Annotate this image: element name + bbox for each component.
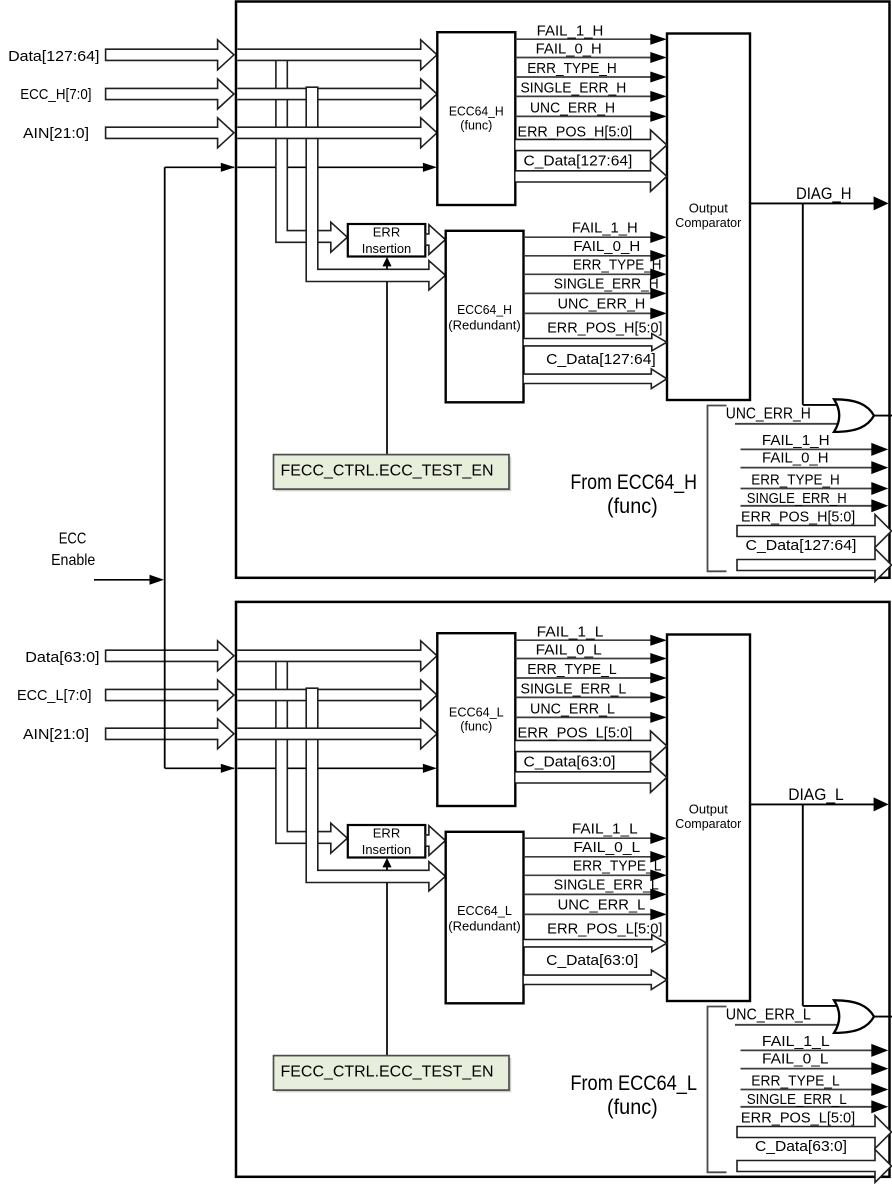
svg-text:Comparator: Comparator [675,215,742,230]
wire FECC_CTRL.ECC_TEST_EN up into ERR Insertion [386,266,388,270]
bracket grouping From-ECC64 signals [708,1007,727,1173]
svg-text:UNC_ERR_H: UNC_ERR_H [726,406,811,423]
wire FAIL_0_H redundant to comparator [524,255,652,257]
block Output Comparator [667,635,750,1002]
bus C_Data func to comparator [516,161,667,191]
wire UNC_ERR_H into OR gate [735,423,838,425]
svg-text:FECC_CTRL.ECC_TEST_EN: FECC_CTRL.ECC_TEST_EN [281,1064,494,1081]
svg-text:ERR_POS_L[5:0]: ERR_POS_L[5:0] [547,921,662,937]
svg-text:UNC_ERR_L: UNC_ERR_L [530,702,615,718]
svg-text:FAIL_1_L: FAIL_1_L [572,821,638,837]
wire ECC enable into box (arrow at border) [221,767,234,769]
bus tap A from Data bus down to ERR Insertion [276,59,347,252]
svg-text:FAIL_1_H: FAIL_1_H [572,220,638,236]
bus tap A from Data bus down to ERR Insertion [276,660,347,853]
svg-text:ERR_POS_L[5:0]: ERR_POS_L[5:0] [518,725,633,741]
block Output Comparator [667,34,750,401]
wire SINGLE_ERR_L to right border [741,1106,873,1108]
svg-text:SINGLE_ERR_H: SINGLE_ERR_H [747,491,847,507]
svg-text:(func): (func) [460,719,492,733]
wire ECC enable inside to ECC64_L func [238,767,425,769]
svg-text:FAIL_1_L: FAIL_1_L [537,624,604,640]
svg-text:ERR: ERR [373,224,400,239]
svg-text:SINGLE_ERR_L: SINGLE_ERR_L [521,682,627,698]
svg-text:C_Data[127:64]: C_Data[127:64] [746,538,857,554]
bus tap B from ECC bus down to redundant block [306,688,445,891]
bus ERR_POS_H[5:0] redundant to comparator [524,334,667,351]
svg-text:ERR_TYPE_L: ERR_TYPE_L [751,1074,839,1090]
svg-text:ECC64_L: ECC64_L [457,904,512,918]
wire FAIL_1_H to right border [741,448,873,450]
wire DIAG_L comparator to border [750,803,875,805]
block ERR Insertion [348,825,426,858]
wire ERR_TYPE_L func to comparator [516,677,653,679]
outer box ECC64_H section [236,2,890,578]
svg-text:Output: Output [689,201,728,216]
svg-text:UNC_ERR_H: UNC_ERR_H [530,101,615,117]
svg-text:FAIL_1_H: FAIL_1_H [762,433,830,449]
svg-text:ERR_TYPE_L: ERR_TYPE_L [527,662,617,678]
wire SINGLE_ERR_H to right border [741,505,873,507]
svg-text:ECC: ECC [59,531,87,548]
svg-text:ERR_TYPE_H: ERR_TYPE_H [573,257,662,273]
bus C_Data func to comparator [516,762,667,792]
wire UNC_ERR_L into OR gate [735,1024,838,1026]
bus C_Data to right border [737,1150,892,1183]
svg-text:ECC64_H: ECC64_H [457,303,512,317]
bus C_Data redundant to comparator [524,970,667,990]
bus AIN input (outside) [106,719,234,749]
bus ERR_POS_H[5:0] to right border [737,515,892,548]
wire ERR_TYPE_H func to comparator [516,76,653,78]
wire ERR_TYPE_L to right border [741,1089,873,1091]
svg-text:ECC_H[7:0]: ECC_H[7:0] [20,86,91,103]
wire SINGLE_ERR_H redundant to comparator [524,292,652,294]
OR gate (DIAG_H | UNC_ERR_H) [834,399,874,432]
svg-text:UNC_ERR_L: UNC_ERR_L [726,1007,811,1024]
wire FAIL_0_H to right border [741,467,873,469]
wire SINGLE_ERR_L func to comparator [516,696,653,698]
svg-text:ERR_POS_H[5:0]: ERR_POS_H[5:0] [518,124,633,140]
OR gate (DIAG_L | UNC_ERR_L) [834,1000,874,1033]
svg-text:ECC64_L: ECC64_L [449,705,504,719]
svg-text:Insertion: Insertion [362,241,412,256]
wire UNC_ERR_H redundant to comparator [524,312,652,314]
bus ERR_POS_L[5:0] redundant to comparator [524,935,667,952]
svg-text:ERR_TYPE_L: ERR_TYPE_L [573,858,662,874]
svg-text:From ECC64_H: From ECC64_H [570,471,697,494]
svg-text:ERR_POS_L[5:0]: ERR_POS_L[5:0] [741,1111,855,1127]
svg-text:(Redundant): (Redundant) [448,319,521,333]
svg-text:C_Data[63:0]: C_Data[63:0] [546,953,638,969]
svg-text:FAIL_0_H: FAIL_0_H [536,42,602,58]
wire ERR_TYPE_H redundant to comparator [524,273,652,275]
wire FAIL_0_H func to comparator [516,57,653,59]
block ECC64_L (Redundant) [446,832,524,1004]
svg-text:ERR_POS_H[5:0]: ERR_POS_H[5:0] [741,510,855,526]
wire ECC enable into box (arrow at border) [221,166,234,168]
wire FAIL_1_L func to comparator [516,639,653,641]
svg-text:(func): (func) [460,118,492,132]
svg-text:DIAG_H: DIAG_H [796,184,852,203]
wire SINGLE_ERR_H func to comparator [516,95,653,97]
wire DIAG_H branch down to OR gate [802,203,804,405]
register box FECC_CTRL.ECC_TEST_EN shadow [276,1058,512,1093]
wire ECC Enable feed arrow [94,579,151,581]
wire ECC enable inside to ECC64_H func [238,166,425,168]
svg-text:C_Data[127:64]: C_Data[127:64] [524,153,633,169]
svg-text:(Redundant): (Redundant) [448,920,521,934]
wire SINGLE_ERR_L redundant to comparator [524,893,652,895]
bus tap B from ECC bus down to redundant block [306,87,445,290]
svg-text:Enable: Enable [51,552,95,569]
block ECC64_H (Redundant) [446,231,524,402]
svg-text:DIAG_L: DIAG_L [788,785,844,804]
wire ECC Enable trunk top elbow [165,166,222,168]
bus Data inside box to func block [237,40,437,70]
svg-text:(func): (func) [607,495,658,518]
wire UNC_ERR_H func to comparator [516,115,653,117]
svg-text:ERR_TYPE_H: ERR_TYPE_H [527,61,617,77]
svg-text:ERR: ERR [373,825,400,840]
register box FECC_CTRL.ECC_TEST_EN shadow [276,457,512,492]
bus ECC_H inside box to func block [237,79,437,109]
wire FAIL_1_H func to comparator [516,38,653,40]
svg-text:ERR_TYPE_H: ERR_TYPE_H [751,473,839,489]
wire FECC_CTRL.ECC_TEST_EN up into ERR Insertion [386,867,388,871]
svg-text:Output: Output [689,802,728,817]
svg-text:Comparator: Comparator [675,816,742,831]
wire DIAG_L branch down to OR gate [802,804,804,1006]
svg-text:SINGLE_ERR_H: SINGLE_ERR_H [521,81,627,97]
wire FAIL_0_L func to comparator [516,658,653,660]
svg-text:From ECC64_L: From ECC64_L [570,1072,697,1095]
wire ERR_TYPE_H to right border [741,488,873,490]
bus ERR_POS_L[5:0] func to comparator [516,731,667,761]
bus ECC input (outside) [106,79,234,109]
wire ECC Enable trunk vertical [164,167,166,768]
register box FECC_CTRL.ECC_TEST_EN [274,455,510,490]
bus ERR Insertion output to redundant block [426,826,446,856]
wire ECC Enable trunk bottom elbow [165,767,222,769]
wire FAIL_0_L redundant to comparator [524,856,652,858]
bus AIN inside box to func block [237,719,437,749]
register box FECC_CTRL.ECC_TEST_EN [274,1056,510,1091]
svg-text:FAIL_0_L: FAIL_0_L [573,840,640,856]
wire OR gate output to edge [873,415,892,417]
wire OR gate output to edge [873,1016,892,1018]
wire FAIL_0_L to right border [741,1068,873,1070]
wire UNC_ERR_L redundant to comparator [524,913,652,915]
wire DIAG_H comparator to border [750,202,875,204]
bus ERR Insertion output to redundant block [426,225,446,255]
svg-text:AIN[21:0]: AIN[21:0] [23,125,89,142]
svg-text:UNC_ERR_H: UNC_ERR_H [558,297,646,313]
svg-text:SINGLE_ERR_L: SINGLE_ERR_L [747,1092,847,1108]
svg-text:ECC64_H: ECC64_H [449,104,504,118]
svg-text:Data[63:0]: Data[63:0] [25,649,99,666]
bus ECC input (outside) [106,680,234,710]
bus AIN inside box to func block [237,118,437,148]
bus Data input (outside) [106,40,234,70]
svg-text:FECC_CTRL.ECC_TEST_EN: FECC_CTRL.ECC_TEST_EN [281,463,494,480]
bus AIN input (outside) [106,118,234,148]
block ERR Insertion [348,224,426,257]
svg-text:FAIL_0_L: FAIL_0_L [536,643,602,659]
bus C_Data to right border [737,549,892,582]
svg-text:AIN[21:0]: AIN[21:0] [23,726,89,743]
outer box ECC64_L section [236,602,890,1177]
bus Data inside box to func block [237,641,437,671]
svg-text:C_Data[63:0]: C_Data[63:0] [524,754,616,770]
wire FAIL_1_L to right border [741,1049,873,1051]
svg-text:C_Data[127:64]: C_Data[127:64] [546,352,656,368]
svg-text:FAIL_0_H: FAIL_0_H [573,239,640,255]
bracket grouping From-ECC64 signals [708,406,727,572]
wire UNC_ERR_L func to comparator [516,716,653,718]
block ECC64_H (func) [437,32,515,205]
svg-text:ECC_L[7:0]: ECC_L[7:0] [17,687,92,704]
svg-text:SINGLE_ERR_H: SINGLE_ERR_H [554,277,659,293]
wire FAIL_1_H redundant to comparator [524,236,652,238]
svg-text:FAIL_0_L: FAIL_0_L [762,1052,829,1068]
svg-text:FAIL_1_H: FAIL_1_H [537,23,604,39]
svg-text:FAIL_0_H: FAIL_0_H [762,451,829,467]
svg-text:C_Data[63:0]: C_Data[63:0] [755,1139,847,1155]
bus ERR_POS_L[5:0] to right border [737,1116,892,1149]
bus ERR_POS_H[5:0] func to comparator [516,130,667,160]
svg-text:ERR_POS_H[5:0]: ERR_POS_H[5:0] [547,320,662,336]
svg-text:FAIL_1_L: FAIL_1_L [762,1034,830,1050]
svg-text:Insertion: Insertion [362,842,412,857]
wire FAIL_1_L redundant to comparator [524,837,652,839]
svg-text:Data[127:64]: Data[127:64] [8,48,99,65]
bus ECC_L inside box to func block [237,680,437,710]
svg-text:(func): (func) [607,1096,658,1119]
block ECC64_L (func) [437,633,515,806]
wire ERR_TYPE_L redundant to comparator [524,874,652,876]
bus Data input (outside) [106,641,234,671]
svg-text:UNC_ERR_L: UNC_ERR_L [558,898,646,914]
svg-text:SINGLE_ERR_L: SINGLE_ERR_L [554,878,659,894]
bus C_Data redundant to comparator [524,369,667,389]
